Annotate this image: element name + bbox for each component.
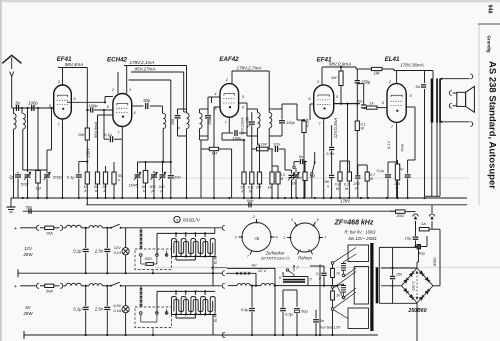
wire coil bottoms 2	[175, 315, 177, 319]
capacitor 150p IFT2 sec	[281, 112, 283, 120]
faint fold line upper	[130, 177, 470, 179]
wire bridge bottom	[416, 303, 418, 341]
node circle top	[331, 262, 334, 265]
svg-text:EL41: EL41	[385, 56, 400, 63]
wire plate	[334, 103, 360, 105]
tube EF41 V4	[314, 85, 334, 119]
wire	[23, 169, 47, 171]
wire grid	[38, 107, 54, 109]
wire screen EL41	[406, 106, 415, 108]
trimmer capacitor 500p	[46, 150, 48, 174]
capacitor 150p IFT2 pri	[251, 112, 253, 121]
capacitor 2,5n sect2	[106, 286, 108, 306]
svg-text:12V: 12V	[114, 246, 121, 250]
svg-text:V: V	[176, 219, 179, 223]
svg-text:5/30: 5/30	[21, 183, 29, 187]
wire grid left pin	[310, 103, 314, 105]
trimmer 15k	[137, 162, 139, 174]
svg-text:150: 150	[208, 119, 212, 125]
svg-text:138V: 138V	[86, 147, 91, 158]
resistor 1M	[259, 145, 261, 172]
capacitor 0,1u	[78, 162, 80, 174]
resistor 0,1W plate	[355, 121, 359, 131]
resistor 0,1M grid	[297, 119, 304, 121]
resistor 195ohm	[395, 164, 399, 180]
wire to bridge top	[418, 249, 420, 262]
antenna	[2, 55, 21, 63]
capacitor 5n bottom	[315, 310, 317, 318]
wire AC bottom to left corner	[381, 285, 402, 287]
switch main 2	[110, 285, 112, 287]
svg-text:56V,6mA: 56V,6mA	[93, 122, 98, 138]
capacitor 150p IFT1	[177, 112, 179, 115]
snubber vertical	[392, 247, 394, 275]
resistor 30 ohm	[390, 210, 396, 212]
svg-text:EL41: EL41	[214, 314, 218, 322]
svg-text:Grundig: Grundig	[487, 35, 492, 52]
capacitor 50n series	[248, 202, 250, 207]
wire tone top	[340, 160, 349, 162]
svg-text:2,5n: 2,5n	[94, 249, 104, 254]
svg-text:1M: 1M	[35, 187, 41, 191]
vibrator coil stack 1	[157, 232, 215, 234]
choke 2	[89, 226, 102, 228]
coil IFT2 secondary	[269, 113, 272, 129]
capacitor 3p	[15, 105, 17, 111]
wire transformer primary bottom	[431, 123, 433, 197]
resistor 0,5M	[251, 149, 253, 172]
capacitor 10n	[168, 175, 174, 177]
wire diode stub	[214, 106, 220, 108]
choke 3	[64, 285, 67, 287]
plug top right	[470, 74, 472, 79]
svg-text:0,1μ: 0,1μ	[67, 175, 76, 180]
wire node to winding C	[334, 310, 349, 319]
capacitor 50p osc	[132, 105, 144, 107]
svg-text:0,5μ: 0,5μ	[285, 312, 294, 317]
capacitor 40u electrolytic	[417, 244, 421, 249]
capacitor 100p	[31, 105, 33, 111]
svg-text:6,1V: 6,1V	[387, 141, 391, 149]
svg-text:0,14: 0,14	[114, 251, 121, 255]
wire secondary top	[379, 246, 417, 248]
capacitor 0,1u output	[405, 174, 411, 176]
wire smoothing	[414, 245, 416, 247]
svg-text:50μ: 50μ	[301, 309, 308, 314]
svg-text:0,1μ: 0,1μ	[73, 249, 82, 254]
capacitor 100p	[222, 132, 233, 134]
chopper primary	[283, 276, 305, 278]
svg-text:R: bei 6V : 100Ω: R: bei 6V : 100Ω	[345, 230, 377, 235]
svg-text:100p: 100p	[28, 101, 38, 106]
vibrator coil stack 2	[157, 290, 215, 292]
wire box2	[140, 314, 142, 322]
hook sect2 top	[222, 283, 225, 288]
bus chassis ground	[11, 197, 467, 199]
chopper transformer core	[283, 279, 305, 281]
svg-text:10n: 10n	[273, 142, 280, 147]
switch main 1	[110, 227, 112, 229]
power transformer winding top	[348, 245, 369, 262]
svg-text:ZF=468 kHz: ZF=468 kHz	[334, 220, 374, 227]
svg-text:≈5: ≈5	[254, 236, 260, 241]
svg-text:p: p	[354, 186, 357, 190]
svg-text:p: p	[160, 189, 163, 193]
wire	[184, 111, 186, 113]
fuse 15A	[40, 227, 45, 229]
wire IFT2 sec top to EF41 grid	[281, 104, 283, 109]
svg-text:50p: 50p	[143, 98, 151, 103]
svg-text:98V,4mA: 98V,4mA	[65, 62, 84, 67]
vibrator dashed box 1	[135, 249, 172, 270]
plug speaker top	[449, 91, 451, 96]
capacitor 0,1u sect1	[85, 228, 87, 248]
right margin rule	[478, 24, 480, 205]
tube ECH42 V2	[113, 94, 132, 127]
wire below transformer	[436, 123, 438, 197]
faint fold line lower	[155, 266, 500, 268]
wire	[258, 144, 260, 146]
resistor 1M detector	[200, 140, 202, 198]
svg-text:10k: 10k	[78, 132, 85, 137]
svg-text:p: p	[177, 126, 180, 130]
hook sect1 return	[222, 271, 225, 276]
choke 1	[64, 227, 67, 229]
svg-text:EL41: EL41	[214, 256, 218, 264]
svg-text:40μ: 40μ	[418, 251, 425, 256]
svg-text:0,1A: 0,1A	[113, 309, 121, 313]
svg-text:0,1M: 0,1M	[306, 118, 310, 127]
wire AC top	[381, 267, 417, 269]
hatched wire sect2	[140, 286, 142, 307]
svg-text:7mA: 7mA	[401, 144, 405, 152]
capacitor 10n	[274, 146, 276, 152]
wire	[222, 139, 244, 141]
svg-text:15A: 15A	[46, 231, 53, 236]
svg-text:50n: 50n	[26, 204, 33, 209]
svg-text:bei 12V~ 200Ω: bei 12V~ 200Ω	[349, 236, 378, 241]
capacitor 0,1u cathode	[385, 174, 391, 176]
svg-text:15n: 15n	[396, 273, 402, 277]
svg-text:0,1μ: 0,1μ	[104, 132, 113, 137]
svg-text:6V: 6V	[252, 263, 257, 268]
resistor 1M b	[271, 149, 273, 172]
coil L2	[21, 108, 23, 114]
svg-text:1M: 1M	[256, 186, 262, 190]
wire plate node	[334, 103, 358, 105]
svg-text:5n: 5n	[320, 318, 325, 323]
svg-text:p: p	[151, 189, 154, 193]
wire box2 to return	[152, 328, 154, 336]
wire	[37, 108, 39, 172]
resistor 1M	[36, 171, 41, 184]
svg-text:0,1μ: 0,1μ	[377, 169, 385, 173]
socket Roehren circle	[291, 223, 320, 252]
svg-text:4: 4	[276, 236, 278, 240]
svg-text:50Ω: 50Ω	[145, 256, 152, 261]
svg-text:178V: 178V	[340, 199, 351, 204]
wire	[246, 109, 248, 136]
resistor 50k	[95, 172, 99, 184]
svg-text:M: M	[280, 177, 283, 181]
svg-text:50n: 50n	[247, 198, 254, 203]
plug bottom right	[470, 122, 472, 127]
svg-text:0,1W: 0,1W	[257, 142, 268, 147]
diagonal wires to transformer	[334, 248, 356, 263]
capacitor 0,1u chopper	[323, 267, 325, 272]
svg-text:1M: 1M	[291, 182, 297, 186]
wire transformer primary top	[432, 71, 434, 79]
svg-text:30A: 30A	[46, 289, 53, 294]
svg-text:300V: 300V	[432, 257, 437, 267]
wire secondary left edge	[378, 247, 380, 303]
wire	[340, 86, 342, 104]
power transformer core	[370, 243, 373, 331]
resistor 1M anode load	[340, 67, 342, 71]
capacitor 16u	[415, 221, 417, 236]
svg-text:5n: 5n	[299, 154, 304, 159]
ground symbol	[10, 198, 12, 207]
coil IFT1 secondary	[200, 113, 203, 129]
capacitor 6,5u	[251, 286, 253, 308]
vibrator dashed box 2	[135, 307, 172, 328]
svg-text:28W: 28W	[22, 311, 33, 316]
svg-text:1M: 1M	[331, 75, 337, 80]
svg-text:3p: 3p	[15, 101, 20, 106]
contact circles box1	[140, 254, 143, 257]
wire chopper caps top	[283, 289, 297, 291]
svg-text:30Ω: 30Ω	[396, 213, 404, 218]
wire	[408, 159, 415, 161]
svg-text:178V,2,1mA: 178V,2,1mA	[130, 60, 155, 65]
connector	[37, 225, 40, 230]
label 220V inside bridge	[416, 272, 418, 299]
wire secondary top to plug	[442, 78, 470, 80]
hook sect2 return	[222, 333, 225, 338]
bus bottom return	[222, 334, 378, 336]
wire plate	[67, 101, 105, 103]
svg-text:1M: 1M	[374, 71, 380, 76]
capacitor 2,5n sect1	[106, 228, 108, 248]
svg-text:220 V: 220 V	[411, 281, 415, 291]
svg-text:nur bei 12V: nur bei 12V	[320, 325, 341, 330]
capacitor 0,1u sect2	[85, 286, 87, 306]
resistor 0,1W	[252, 148, 257, 150]
resistor 1M tone	[303, 172, 307, 181]
resistor 0,8M	[338, 172, 342, 181]
svg-text:6,5μ: 6,5μ	[241, 307, 250, 312]
wire IFT1 tops	[178, 108, 187, 110]
node circle bottom	[331, 308, 334, 311]
svg-text:948: 948	[487, 5, 493, 14]
svg-text:2,5n: 2,5n	[325, 151, 335, 156]
svg-text:6,8V: 6,8V	[113, 304, 121, 308]
svg-text:95V,27mA: 95V,27mA	[134, 67, 155, 72]
svg-text:1A: 1A	[421, 221, 426, 226]
svg-text:32/TNT6 bzw.72: 32/TNT6 bzw.72	[260, 256, 290, 261]
resistor 1M decoupling	[371, 67, 382, 70]
svg-text:178V,2,7mA: 178V,2,7mA	[237, 66, 262, 71]
svg-text:M: M	[370, 177, 373, 181]
plug speaker bottom	[449, 103, 451, 108]
contact circles box2	[140, 312, 143, 315]
wire 300V feed	[439, 229, 441, 286]
capacitor 150p IFT1 sec	[207, 112, 209, 115]
wire plate to IFT2	[239, 102, 247, 104]
resistor 50 ohm box1	[146, 263, 153, 266]
svg-text:4: 4	[134, 111, 136, 115]
hook sect1 top	[222, 225, 225, 230]
svg-text:8: 8	[308, 249, 310, 253]
wire sec top to EAF grid	[207, 97, 209, 109]
wire IFT1 bottoms	[178, 135, 187, 137]
svg-text:15/45: 15/45	[129, 184, 138, 188]
wire oscillator feedback	[129, 79, 171, 81]
hatched wire sect1	[140, 228, 142, 249]
resistor 0,7M	[365, 172, 369, 181]
wire input line	[12, 107, 56, 109]
wire secondary bottom	[379, 302, 417, 304]
wire box1 to return	[152, 270, 154, 274]
wire cathode	[62, 119, 64, 141]
choke chopper 1	[237, 283, 250, 285]
svg-text:Ω: Ω	[396, 186, 399, 190]
capacitor 5n anode	[424, 71, 426, 84]
coil IFT2 primary	[258, 113, 261, 129]
separator line top right	[478, 23, 500, 25]
svg-text:+: +	[14, 284, 17, 290]
svg-text:Röhren: Röhren	[298, 256, 312, 261]
selenium stack lower	[342, 296, 345, 299]
capacitor 5n tone	[294, 161, 299, 163]
svg-text:833Ω,/V: 833Ω,/V	[183, 218, 201, 223]
svg-text:+: +	[14, 226, 17, 232]
wire chopper sec	[282, 272, 284, 277]
capacitor 0,5u	[282, 290, 284, 307]
svg-text:98V,0,6mA: 98V,0,6mA	[329, 62, 351, 67]
resistor 0,3M	[276, 172, 280, 184]
svg-text:AS 238 Standard, Autosuper: AS 238 Standard, Autosuper	[487, 61, 498, 189]
tube EL41 V5	[387, 84, 406, 123]
coil IFT1 primary	[187, 113, 190, 129]
resistor 1k grid stopper EL41	[364, 108, 367, 109]
wire buffer top	[294, 265, 324, 267]
capacitor 250p	[356, 69, 358, 80]
capacitor 50u electrolytic	[296, 290, 298, 307]
svg-text:2,5n: 2,5n	[94, 307, 104, 312]
wire cathode EL41	[396, 122, 398, 198]
svg-text:ECH42: ECH42	[107, 57, 128, 64]
fuse 30A	[40, 285, 45, 287]
wire IFT2 tops	[247, 108, 258, 110]
wire	[231, 149, 233, 198]
svg-text:150p: 150p	[286, 120, 296, 125]
svg-text:5n: 5n	[358, 99, 363, 104]
capacitor 250p tone	[355, 175, 360, 177]
resistor 50k	[113, 162, 115, 172]
wire cathode to ground	[62, 140, 64, 198]
node circle mid	[331, 286, 334, 289]
wire tube top stubs	[117, 72, 119, 94]
contact 2	[286, 269, 288, 271]
output transformer core	[431, 79, 434, 123]
connector 2	[36, 283, 39, 288]
choke chopper 2	[261, 283, 274, 285]
svg-text:16μ: 16μ	[405, 236, 412, 241]
wire osc bus	[138, 161, 171, 163]
svg-text:178V,36mA: 178V,36mA	[400, 63, 424, 68]
resistor 0,2M	[347, 172, 351, 181]
resistor 10k screen	[85, 128, 89, 140]
potentiometer 1M	[293, 174, 299, 176]
power transformer winding mid	[354, 267, 368, 305]
selenium stack upper	[342, 274, 345, 277]
tube EAF42 V3	[220, 84, 239, 118]
wire	[272, 165, 278, 167]
wire heater feed	[319, 265, 321, 336]
capacitor 15n	[390, 275, 395, 277]
svg-text:12 V: 12 V	[258, 268, 267, 273]
wire screen	[347, 104, 349, 172]
resistor 1k lower	[332, 288, 334, 291]
wire chopper feed	[228, 285, 237, 287]
plug arrow left	[413, 214, 418, 217]
resistor 50k	[143, 171, 148, 184]
resistor 55k	[243, 140, 245, 172]
svg-text:0,2: 0,2	[344, 183, 350, 187]
svg-text:500p: 500p	[53, 175, 63, 180]
capacitor 0,1u grid	[103, 109, 105, 111]
choke 4	[89, 284, 102, 286]
coil osc	[162, 106, 164, 114]
svg-text:12V: 12V	[24, 246, 33, 251]
svg-text:1k: 1k	[336, 272, 340, 276]
wire IFT2 bottoms	[252, 135, 258, 137]
trimmer 500p	[151, 174, 157, 176]
svg-text:12V,0,2mA: 12V,0,2mA	[333, 118, 338, 139]
svg-text:5n: 5n	[416, 84, 421, 89]
svg-text:n: n	[327, 185, 329, 189]
capacitor 50n	[329, 174, 334, 176]
svg-text:0,1μ: 0,1μ	[73, 307, 82, 312]
wire	[27, 108, 29, 172]
svg-text:1: 1	[300, 249, 302, 253]
svg-text:W: W	[361, 127, 365, 131]
wire cathode V4	[323, 119, 325, 199]
wire AVC with 100p	[86, 109, 88, 111]
svg-text:90V,12mA: 90V,12mA	[241, 117, 245, 135]
svg-text:10n: 10n	[174, 175, 181, 180]
bus third	[23, 210, 396, 212]
svg-text:100p: 100p	[89, 103, 99, 108]
svg-text:4: 4	[214, 92, 216, 96]
svg-text:28W: 28W	[22, 252, 33, 257]
switch tone	[314, 162, 316, 164]
battery minus 6V	[23, 331, 25, 339]
plug arrow right	[429, 214, 434, 217]
wire	[274, 286, 276, 335]
resistor 30k	[105, 166, 107, 172]
capacitor 5n coupling	[363, 84, 365, 105]
svg-text:EAF42: EAF42	[219, 56, 239, 63]
svg-text:p: p	[247, 124, 250, 128]
bridge rectifier B250B60	[402, 268, 434, 303]
svg-text:1M: 1M	[267, 186, 273, 190]
wire secondary bottom to plug	[442, 121, 470, 123]
svg-text:150: 150	[171, 119, 175, 125]
power transformer winding bottom	[348, 308, 369, 329]
svg-text:1k: 1k	[336, 294, 340, 298]
